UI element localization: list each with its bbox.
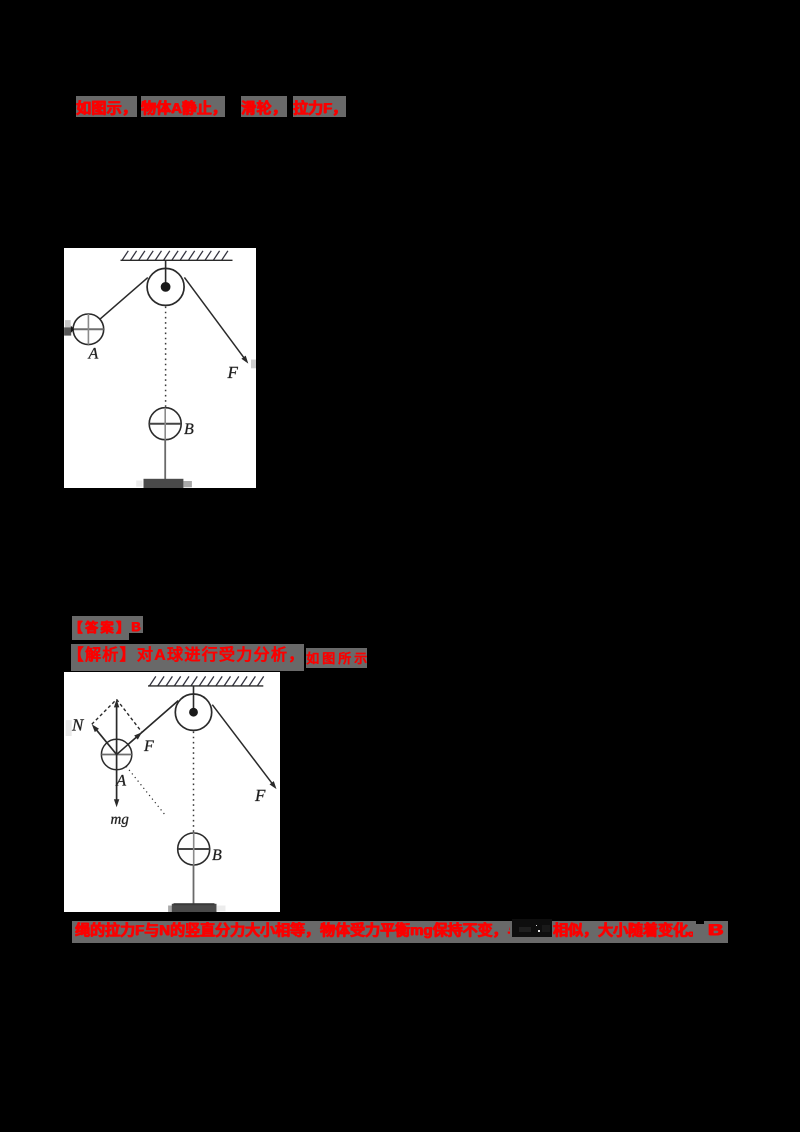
label A	[88, 348, 99, 359]
ground block	[168, 903, 225, 912]
dotted rope pulley to B	[192, 732, 194, 834]
ceiling hatching	[121, 251, 233, 260]
dotted incline line	[126, 766, 164, 814]
label F	[227, 367, 238, 378]
dashed parallelogram right	[116, 699, 141, 732]
pulley	[147, 268, 184, 305]
ceiling hatching	[148, 676, 264, 686]
wire rope pulley to F	[184, 277, 248, 363]
ball B	[177, 833, 209, 865]
force arrow up (resultant)	[113, 699, 118, 754]
force F arrow on A	[134, 732, 142, 739]
force N arrow	[91, 724, 116, 754]
ground block	[136, 479, 192, 488]
label F right	[254, 790, 265, 801]
dotted rope pulley to B	[165, 307, 167, 408]
ball A	[73, 314, 104, 345]
force mg arrow	[113, 755, 118, 808]
wire rod B to ground	[192, 865, 194, 904]
wire pulley support	[192, 686, 194, 712]
label mg	[111, 817, 128, 827]
label A	[115, 775, 126, 786]
selection handle left	[65, 720, 71, 736]
label B	[212, 850, 221, 861]
wire rope A to pulley	[116, 701, 178, 755]
wire rope pulley to F	[212, 705, 276, 789]
label B	[184, 424, 193, 435]
wire rod B to ground	[164, 440, 166, 479]
label F on A	[143, 741, 153, 751]
ball A	[101, 701, 178, 770]
wire rope A to pulley	[100, 278, 148, 320]
pulley	[175, 694, 211, 730]
wire pulley support	[165, 260, 167, 287]
wall anchor	[64, 320, 74, 336]
label N	[71, 719, 83, 730]
ball B	[149, 408, 181, 440]
dashed parallelogram left	[91, 699, 116, 724]
node handle square	[251, 360, 256, 369]
